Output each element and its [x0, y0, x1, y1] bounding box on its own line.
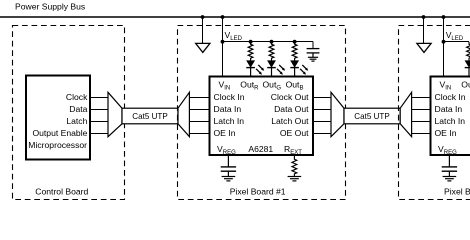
- control board dashed outline: [13, 26, 125, 200]
- wire: clock in to U2: [412, 97, 431, 99]
- node: VLED rail junction board 2: [442, 40, 446, 44]
- capacitor C2 on VREG: [221, 155, 236, 177]
- svg-text:Clock: Clock: [66, 92, 88, 102]
- svg-text:Latch In: Latch In: [435, 116, 466, 126]
- wire: clock out from U1: [314, 97, 331, 99]
- svg-text:Clock In: Clock In: [214, 92, 245, 102]
- svg-text:Clock Out: Clock Out: [271, 92, 309, 102]
- node: bus junction dot 1: [201, 15, 205, 19]
- wire: VLED feed down to VIN board 2: [443, 17, 445, 76]
- wire: latch in to U1: [189, 121, 208, 123]
- resistor R-green: [269, 42, 274, 61]
- connector J4: [400, 92, 411, 136]
- svg-text:Latch: Latch: [66, 116, 87, 126]
- microprocessor block: [26, 76, 90, 160]
- wire: OE in to U1: [189, 133, 208, 135]
- ground for C3: [443, 177, 457, 181]
- svg-text:Output Enable: Output Enable: [32, 128, 87, 138]
- wire: VLED rail board 2: [444, 41, 470, 43]
- svg-text:Data In: Data In: [435, 104, 463, 114]
- wire: latch in to U2: [412, 121, 431, 123]
- supply arrow board 1: [196, 18, 210, 53]
- svg-text:Pixel Boa: Pixel Boa: [444, 186, 470, 196]
- svg-text:Clock In: Clock In: [435, 92, 466, 102]
- ground for C2: [222, 177, 236, 181]
- resistor R-red board 2: [467, 42, 470, 61]
- ground for C1: [308, 57, 318, 61]
- resistor R-blue: [292, 42, 297, 61]
- capacitor C3 on VREG board 2: [442, 155, 457, 177]
- wire: clock from microprocessor: [91, 97, 108, 99]
- svg-text:Cat5 UTP: Cat5 UTP: [132, 112, 168, 121]
- svg-text:A6281: A6281: [248, 144, 273, 154]
- wire: clock in to U1: [189, 97, 208, 99]
- node: rail dot B: [293, 40, 297, 44]
- svg-text:Data In: Data In: [214, 104, 242, 114]
- wire: output enable from microprocessor: [91, 133, 108, 135]
- supply arrow board 2: [417, 18, 431, 53]
- wire: data out from U1: [314, 109, 331, 111]
- wire: OE out from U1: [314, 133, 331, 135]
- connector J1: [108, 92, 122, 136]
- LED D-blue: [290, 61, 308, 76]
- LED D-red: [246, 61, 264, 76]
- wire: VLED rail board 1: [223, 41, 314, 43]
- node: bus junction dot 3: [422, 15, 426, 19]
- wire: latch out from U1: [314, 121, 331, 123]
- LED D-red board 2: [465, 61, 470, 76]
- svg-text:OE Out: OE Out: [280, 128, 309, 138]
- node: rail dot R: [249, 40, 253, 44]
- connector J2: [178, 92, 189, 136]
- LED D-green: [267, 61, 285, 76]
- op-amp U2 A6281 box board 2: [431, 77, 470, 156]
- wire: data in to U2: [412, 109, 431, 111]
- node: VLED rail junction: [221, 40, 225, 44]
- svg-text:OE In: OE In: [435, 128, 457, 138]
- wire: latch from microprocessor: [91, 121, 108, 123]
- svg-text:OE In: OE In: [214, 128, 236, 138]
- resistor R-red: [248, 42, 253, 61]
- node: bus junction dot 4: [442, 15, 446, 19]
- svg-text:Data: Data: [69, 104, 87, 114]
- node: rail dot G: [270, 40, 274, 44]
- wire: data from microprocessor: [91, 109, 108, 111]
- pixel board #2 dashed outline: [399, 26, 470, 200]
- wire: VLED feed down to VIN: [222, 17, 224, 76]
- wire: data in to U1: [189, 109, 208, 111]
- ground for REXT: [288, 177, 302, 181]
- svg-text:Power Supply Bus: Power Supply Bus: [15, 1, 85, 11]
- connector J3: [331, 92, 344, 136]
- svg-text:Pixel Board #1: Pixel Board #1: [230, 186, 286, 196]
- svg-text:Cat5 UTP: Cat5 UTP: [354, 112, 390, 121]
- cable W2 Cat5 UTP: [344, 108, 400, 124]
- capacitor C1 on VLED rail: [307, 49, 320, 58]
- pixel board #1 dashed outline: [178, 26, 346, 200]
- svg-text:Control Board: Control Board: [35, 186, 88, 196]
- resistor REXT: [292, 156, 297, 177]
- svg-text:Microprocessor: Microprocessor: [28, 140, 87, 150]
- wire: power supply bus rail: [0, 16, 470, 18]
- wire: OE in to U2: [412, 133, 431, 135]
- svg-text:Data Out: Data Out: [274, 104, 309, 114]
- svg-text:Latch In: Latch In: [214, 116, 245, 126]
- op-amp U1 A6281 box: [210, 77, 314, 156]
- node: bus junction dot 2: [221, 15, 225, 19]
- cable W1 Cat5 UTP: [122, 108, 178, 124]
- svg-text:Latch Out: Latch Out: [271, 116, 309, 126]
